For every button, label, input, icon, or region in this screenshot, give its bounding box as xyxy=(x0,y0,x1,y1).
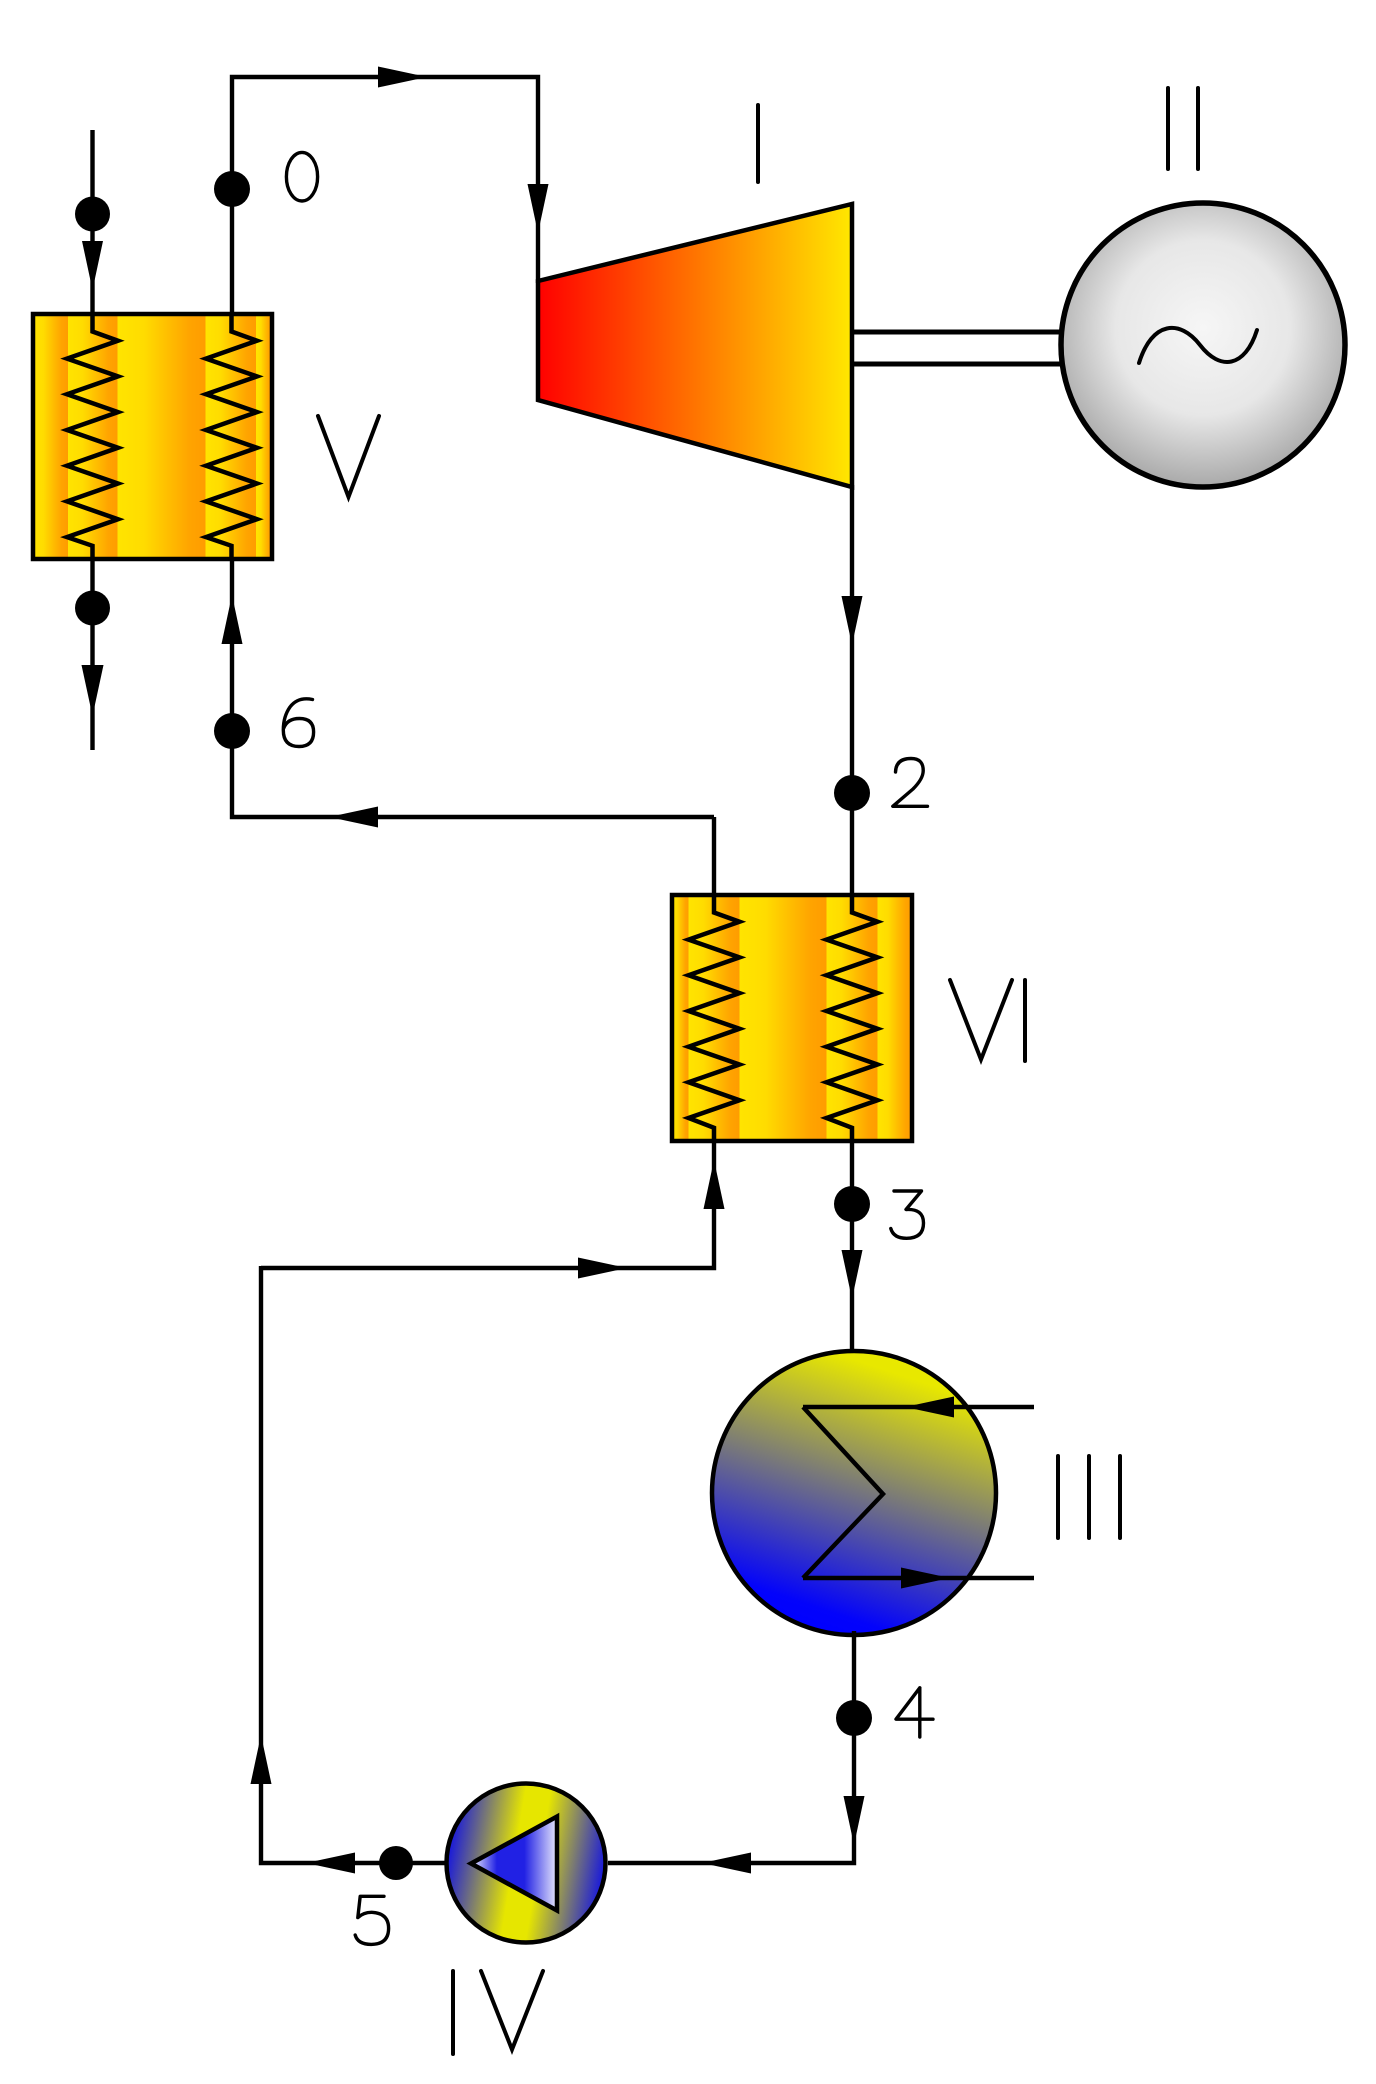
arrow right on cooling outlet xyxy=(901,1568,950,1589)
arrow left toward pump xyxy=(702,1853,751,1874)
coil right of heat exchanger V xyxy=(206,314,257,559)
arrow up on feed riser xyxy=(251,1735,272,1784)
label IV xyxy=(451,1971,455,2054)
label I xyxy=(756,105,760,182)
wire from VI top coil up to node-6 line xyxy=(712,817,716,897)
arrow left after node 5 xyxy=(306,1853,355,1874)
wire condenser outlet down and left to pump xyxy=(608,1631,854,1863)
node 3 xyxy=(834,1186,870,1222)
node 6 xyxy=(214,713,250,749)
condenser III body xyxy=(712,1351,996,1635)
arrow left on cooling inlet xyxy=(905,1397,954,1418)
label 6 xyxy=(283,699,313,747)
heat exchanger VI body xyxy=(672,895,912,1141)
arrow down into condenser xyxy=(842,1250,863,1299)
cooling coil diagonal xyxy=(803,1407,883,1578)
label VI xyxy=(950,980,1012,1060)
arrow down on exhaust wire xyxy=(842,596,863,645)
coil left of heat exchanger V xyxy=(67,314,118,559)
arrow right on top wire xyxy=(378,67,427,88)
wire pump to feed riser xyxy=(261,1266,450,1863)
wire node 6 riser from corner to heat exchanger V xyxy=(232,557,714,817)
label 3 xyxy=(891,1191,924,1238)
arrow left on node 6 wire xyxy=(329,807,378,828)
arrow up into VI xyxy=(704,1160,725,1209)
wire feed riser to VI bottom xyxy=(261,1139,714,1268)
pump IV body xyxy=(447,1784,606,1943)
shaft turbine to generator xyxy=(852,330,1066,335)
junction dot on hot outlet xyxy=(75,591,110,626)
wire turbine exhaust down to heat exchanger VI xyxy=(850,485,854,897)
arrow down to pump line xyxy=(844,1796,865,1845)
pump impeller triangle xyxy=(471,1817,557,1911)
arrow down on turbine inlet wire xyxy=(528,184,549,233)
arrow down on hot inlet xyxy=(82,241,103,290)
heat exchanger V body xyxy=(33,314,272,559)
wire top horizontal from node 0 to turbine inlet xyxy=(232,77,538,316)
node 0 xyxy=(214,171,250,207)
label 4 xyxy=(896,1688,933,1737)
coil left of heat exchanger VI xyxy=(689,895,740,1141)
generator II xyxy=(1061,203,1345,487)
wire hot inlet to heat exchanger V xyxy=(90,130,94,316)
label V xyxy=(318,416,379,497)
label 2 xyxy=(893,759,928,807)
label III xyxy=(1056,1456,1060,1538)
label 5 xyxy=(355,1896,388,1944)
node 4 xyxy=(836,1700,872,1736)
arrow down at hot outlet end xyxy=(82,665,104,716)
node 5 xyxy=(379,1846,413,1880)
arrow up into heat exchanger V xyxy=(222,595,243,644)
wire VI to condenser III xyxy=(850,1139,854,1355)
label II xyxy=(1166,88,1170,169)
node 2 xyxy=(834,775,870,811)
cooling water top line xyxy=(803,1405,1034,1409)
junction dot on hot inlet xyxy=(75,197,110,232)
cooling water bottom line xyxy=(803,1576,1034,1580)
turbine I xyxy=(538,204,852,487)
wire hot outlet of heat exchanger V xyxy=(90,557,94,750)
coil right of heat exchanger VI xyxy=(827,895,878,1141)
arrow right on feed line xyxy=(578,1258,627,1279)
sine symbol in generator xyxy=(1139,328,1257,363)
label 0 xyxy=(286,152,317,201)
